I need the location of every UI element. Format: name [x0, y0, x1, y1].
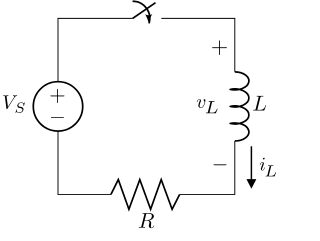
switch closing-arrow arc [133, 1, 150, 23]
wire: top-right segment (switch right contact to inductor top) [161, 18, 235, 72]
current i_L arrow line [250, 146, 252, 180]
label v_L [197, 99, 206, 108]
switch blade (closing switch) [133, 3, 156, 19]
inductor L coil (4 loops with cusps) [230, 72, 249, 141]
label V_S [3, 95, 17, 109]
inductor voltage plus sign [212, 40, 227, 55]
resistor R zigzag [111, 180, 180, 210]
label i_L [260, 158, 265, 171]
label R [139, 213, 154, 228]
current i_L arrowhead [246, 179, 256, 189]
label L [253, 96, 266, 111]
switch arrowhead [145, 14, 152, 24]
voltage source VS: minus sign [51, 116, 64, 119]
inductor voltage minus sign [214, 163, 227, 166]
wire: top-left segment (source top to switch left contact) [58, 18, 133, 81]
wire: bottom-left segment (resistor left to source bottom) [58, 131, 111, 194]
voltage source VS: plus sign [50, 89, 64, 103]
voltage source VS: circle [33, 82, 82, 131]
wire: bottom-right segment (inductor bottom to resistor right) [180, 141, 235, 194]
